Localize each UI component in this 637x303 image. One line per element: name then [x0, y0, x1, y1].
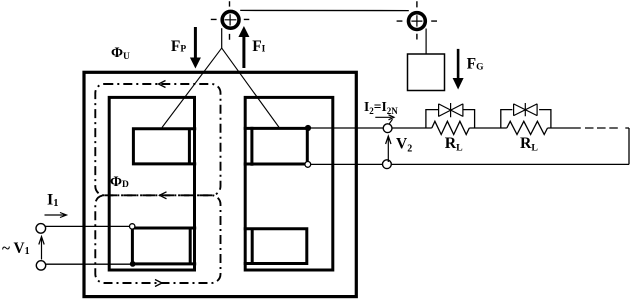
flux arrow middle line (points left) [160, 192, 167, 199]
node open circle at upper-right coil bottom terminal [305, 162, 311, 168]
node open circle at lower-left coil top terminal [130, 224, 135, 229]
svg-text:~ V1: ~ V1 [2, 240, 30, 257]
svg-text:I1: I1 [47, 191, 58, 209]
wire primary bottom (V1 bottom terminal to lower-left coil) [45, 263, 133, 265]
svg-text:ΦD: ΦD [110, 174, 129, 190]
svg-text:I2=I2N: I2=I2N [364, 99, 398, 116]
terminal circle V2 bottom [383, 160, 392, 169]
coil W4 lower-right (right window) [244, 227, 309, 265]
pulley P1 axle cross [225, 14, 237, 25]
junction dot at lower-left coil bottom terminal [130, 261, 136, 267]
wire primary top (V1 top terminal to lower-left coil) [45, 225, 132, 227]
bypass switch S2 across RL2 (wire loop) [501, 110, 551, 128]
junction dot at upper-right coil top terminal [305, 125, 311, 131]
svg-text:FP: FP [171, 38, 186, 55]
pulley P1 left wheel [222, 11, 239, 28]
wire secondary top dashed continuation [585, 127, 629, 129]
wire secondary top (upper-right coil to load) [308, 127, 581, 129]
core left window [109, 97, 194, 270]
flux arrow lower loop (points right, bottom side) [155, 280, 162, 287]
coil W1 upper-left (winding on centre limb, left window) [132, 127, 196, 165]
force arrow FI (up) [242, 36, 245, 68]
force arrow FP (down) [194, 27, 197, 60]
flux path lower loop (dash-dot) [95, 195, 220, 283]
rope from pulley P1 down to yoke apex [221, 28, 223, 48]
pulley P2 axle cross [411, 15, 422, 26]
weight box G [408, 54, 445, 91]
svg-text:V2: V2 [396, 136, 412, 155]
pulley P1 centerline dashes [211, 1, 250, 39]
resistor RL2 zigzag [507, 121, 548, 134]
flux path upper loop (dash-dot) [95, 84, 220, 195]
pulley P2 centerline dashes [397, 1, 437, 39]
coil W3 upper-right (winding on centre limb, right window) [244, 127, 309, 166]
svg-text:ΦU: ΦU [111, 45, 130, 62]
wire secondary bottom (return) [308, 163, 629, 165]
switch S1 contact symbol (two triangles and bar) [439, 103, 463, 117]
arrow I2 (current direction, points right) [375, 115, 394, 124]
switch S2 contact symbol (two triangles and bar) [514, 103, 538, 116]
coil W2 lower-left (primary winding, left window) [131, 226, 196, 265]
core right window [245, 97, 333, 270]
svg-text:FI: FI [252, 38, 265, 55]
wire secondary right vertical [628, 128, 630, 164]
rope from pulley P2 down to weight [425, 29, 427, 55]
arrow V1 (voltage, points up) [39, 237, 44, 260]
rope between pulleys [240, 9, 409, 11]
arrow V2 (voltage, points up) [386, 136, 391, 162]
terminal circle V1 bottom [36, 261, 45, 270]
transformer core outer boundary [84, 72, 356, 296]
arrow I1 (current direction, points right) [45, 213, 67, 218]
resistor RL1 zigzag [432, 121, 470, 134]
string from apex to upper-left coil [162, 48, 222, 127]
svg-text:RL: RL [520, 135, 538, 154]
pulley P2 right wheel [409, 13, 426, 30]
force arrow FG (down) [457, 49, 460, 80]
string from apex to upper-right coil [222, 48, 280, 128]
terminal circle V1 top [36, 224, 46, 234]
svg-text:RL: RL [445, 135, 463, 154]
flux arrow upper loop (points left, top side) [159, 81, 166, 88]
bypass switch S1 across RL1 (wire loop) [426, 110, 475, 128]
terminal circle V2 top [383, 124, 392, 133]
svg-text:FG: FG [467, 55, 484, 72]
